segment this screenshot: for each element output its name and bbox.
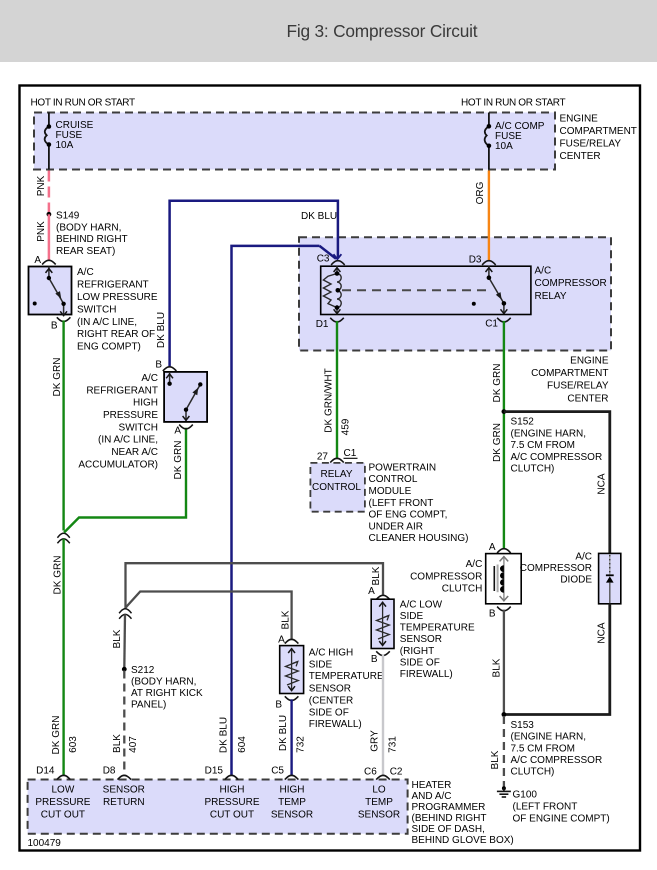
svg-text:HOT IN RUN OR START: HOT IN RUN OR START	[31, 98, 136, 109]
svg-text:HOT IN RUN OR START: HOT IN RUN OR START	[461, 98, 566, 109]
svg-text:SENSOR: SENSOR	[309, 683, 351, 694]
svg-text:C5: C5	[271, 766, 284, 777]
svg-text:BLK: BLK	[112, 734, 123, 753]
wire DK GRN (HP switch A to junction)	[64, 428, 186, 533]
svg-text:CLUTCH): CLUTCH)	[511, 464, 555, 475]
svg-text:A: A	[368, 586, 375, 597]
svg-text:27: 27	[317, 452, 329, 463]
svg-text:FUSE/RELAY: FUSE/RELAY	[547, 381, 609, 392]
svg-text:A/C: A/C	[77, 267, 94, 278]
svg-text:(ENGINE HARN,: (ENGINE HARN,	[511, 732, 587, 743]
svg-text:COMPRESSOR: COMPRESSOR	[520, 563, 592, 574]
svg-text:D15: D15	[205, 766, 224, 777]
svg-text:SIDE: SIDE	[309, 659, 333, 670]
svg-text:BLK: BLK	[280, 610, 291, 629]
svg-text:CENTER: CENTER	[567, 393, 608, 404]
wire GRY 731 (to C6)	[382, 654, 384, 775]
inline connector on BLK wire	[119, 609, 131, 619]
svg-text:DK BLU: DK BLU	[301, 211, 337, 222]
svg-text:ACCUMULATOR): ACCUMULATOR)	[78, 459, 158, 470]
svg-text:PANEL): PANEL)	[131, 700, 166, 711]
svg-text:HEATER: HEATER	[412, 780, 452, 791]
wire DK BLU (branch to D15)	[232, 246, 320, 775]
terminal D14	[57, 775, 71, 779]
svg-text:COMPRESSOR: COMPRESSOR	[535, 278, 607, 289]
svg-text:PNK: PNK	[36, 175, 47, 196]
engine compartment fuse/relay center box	[34, 113, 555, 170]
svg-text:G100: G100	[513, 789, 538, 800]
terminal D15	[225, 775, 239, 779]
svg-text:POWERTRAIN: POWERTRAIN	[369, 462, 437, 473]
svg-text:A/C: A/C	[535, 266, 552, 277]
svg-text:B: B	[51, 320, 58, 331]
svg-text:DK BLU: DK BLU	[218, 717, 229, 753]
svg-text:PRESSURE: PRESSURE	[204, 797, 259, 808]
wire BLK sensor return (top run to low side sensor)	[126, 563, 384, 608]
svg-text:PRESSURE: PRESSURE	[35, 797, 90, 808]
relay U: A/C compressor relay inner box	[321, 266, 531, 314]
svg-text:A: A	[174, 426, 181, 437]
splice S152	[502, 409, 507, 414]
svg-text:CUT OUT: CUT OUT	[41, 810, 85, 821]
wire DK GRN/WHT (D1 to PCM)	[336, 321, 338, 458]
svg-text:100479: 100479	[28, 838, 62, 849]
pin 27 / terminal C1 (PCM)	[330, 458, 344, 462]
svg-text:GRY: GRY	[370, 730, 381, 752]
terminal D8	[118, 775, 132, 779]
svg-text:BEHIND GLOVE BOX): BEHIND GLOVE BOX)	[412, 835, 514, 846]
svg-text:10A: 10A	[495, 141, 513, 152]
svg-text:CUT OUT: CUT OUT	[210, 810, 254, 821]
svg-text:LOW PRESSURE: LOW PRESSURE	[77, 292, 158, 303]
svg-text:(BEHIND RIGHT: (BEHIND RIGHT	[412, 813, 487, 824]
svg-text:SENSOR: SENSOR	[400, 634, 442, 645]
svg-text:DK GRN: DK GRN	[52, 358, 63, 397]
svg-text:DIODE: DIODE	[560, 574, 592, 585]
svg-text:PROGRAMMER: PROGRAMMER	[412, 802, 486, 813]
diode D1: A/C compressor diode	[599, 553, 621, 603]
svg-text:A/C: A/C	[466, 559, 483, 570]
svg-text:C6: C6	[364, 767, 377, 778]
PCM U: RELAY CONTROL box	[310, 463, 365, 512]
inline connector on DK GRN wire	[57, 533, 69, 543]
svg-text:RELAY: RELAY	[320, 469, 352, 480]
wire BLK (connector to S212)	[123, 614, 126, 669]
svg-text:C2: C2	[390, 767, 403, 778]
svg-text:A/C HIGH: A/C HIGH	[309, 647, 353, 658]
svg-text:BLK: BLK	[112, 629, 123, 648]
svg-text:CLUTCH: CLUTCH	[442, 584, 483, 595]
svg-text:D1: D1	[316, 319, 329, 330]
svg-text:COMPARTMENT: COMPARTMENT	[531, 368, 608, 379]
relay outer box (engine compartment fuse/relay center)	[299, 237, 611, 350]
svg-text:ENGINE: ENGINE	[570, 355, 609, 366]
wire BLK (second run to high side sensor)	[126, 592, 292, 639]
svg-text:SWITCH: SWITCH	[77, 304, 116, 315]
svg-text:HIGH: HIGH	[280, 785, 305, 796]
svg-text:D14: D14	[36, 766, 55, 777]
svg-text:UNDER AIR: UNDER AIR	[369, 521, 423, 532]
wire BLK dashed (S153 to G100)	[503, 716, 505, 787]
switch: A/C refrigerant low pressure switch	[29, 267, 72, 315]
splice S149	[47, 212, 52, 217]
terminal B (low side sensor)	[376, 651, 390, 655]
terminal C1 (relay)	[497, 318, 511, 322]
svg-text:RIGHT REAR OF: RIGHT REAR OF	[77, 329, 155, 340]
svg-text:REFRIGERANT: REFRIGERANT	[86, 385, 158, 396]
svg-text:REAR SEAT): REAR SEAT)	[56, 246, 115, 257]
svg-text:BEHIND RIGHT: BEHIND RIGHT	[56, 234, 128, 245]
svg-text:AND A/C: AND A/C	[412, 791, 452, 802]
svg-text:OF ENG COMPT,: OF ENG COMPT,	[369, 510, 448, 521]
svg-text:TEMP: TEMP	[365, 797, 393, 808]
svg-text:COMPARTMENT: COMPARTMENT	[560, 126, 637, 137]
solenoid: A/C compressor clutch	[486, 554, 522, 604]
svg-text:REFRIGERANT: REFRIGERANT	[77, 280, 149, 291]
svg-text:SIDE OF: SIDE OF	[400, 657, 440, 668]
svg-text:CONTROL: CONTROL	[369, 474, 418, 485]
svg-text:MODULE: MODULE	[369, 486, 412, 497]
svg-text:DK GRN: DK GRN	[173, 441, 184, 480]
svg-text:OF ENGINE COMPT): OF ENGINE COMPT)	[513, 813, 610, 824]
svg-text:TEMPERATURE: TEMPERATURE	[309, 671, 384, 682]
svg-text:SENSOR: SENSOR	[103, 785, 145, 796]
terminal B (high side sensor)	[285, 696, 299, 700]
svg-text:ENGINE: ENGINE	[560, 113, 599, 124]
svg-text:COMPRESSOR: COMPRESSOR	[410, 572, 482, 583]
svg-text:C1: C1	[344, 448, 357, 459]
svg-text:(CENTER: (CENTER	[309, 695, 353, 706]
svg-text:BLK: BLK	[490, 750, 501, 769]
svg-text:DK GRN/WHT: DK GRN/WHT	[323, 368, 334, 432]
svg-text:DK GRN: DK GRN	[51, 716, 62, 755]
svg-text:SIDE OF: SIDE OF	[309, 707, 349, 718]
svg-text:RELAY: RELAY	[535, 291, 567, 302]
fuse CRUISE FUSE 10A	[45, 113, 49, 170]
svg-text:A/C COMPRESSOR: A/C COMPRESSOR	[511, 755, 603, 766]
svg-text:SENSOR: SENSOR	[271, 810, 313, 821]
svg-text:(IN A/C LINE,: (IN A/C LINE,	[98, 435, 158, 446]
svg-text:(IN A/C LINE,: (IN A/C LINE,	[77, 317, 137, 328]
svg-text:S152: S152	[511, 417, 535, 428]
svg-text:732: 732	[296, 736, 307, 753]
terminal D1	[330, 318, 344, 322]
svg-text:DK GRN: DK GRN	[492, 364, 503, 403]
relay internal dashed link	[342, 289, 487, 291]
svg-text:SIDE: SIDE	[400, 611, 424, 622]
svg-text:A/C: A/C	[141, 373, 158, 384]
svg-text:7.5 CM FROM: 7.5 CM FROM	[511, 440, 575, 451]
svg-text:ORG: ORG	[475, 181, 486, 204]
svg-text:SIDE OF DASH,: SIDE OF DASH,	[412, 824, 485, 835]
svg-text:S153: S153	[511, 720, 535, 731]
terminal A (clutch)	[497, 549, 511, 553]
svg-text:459: 459	[341, 418, 352, 435]
wire DK GRN (relay C1 to clutch A)	[503, 321, 505, 548]
terminal B (clutch)	[497, 607, 511, 611]
svg-text:(LEFT FRONT: (LEFT FRONT	[513, 801, 578, 812]
svg-text:731: 731	[388, 736, 399, 753]
ground G100	[502, 786, 506, 790]
svg-text:FUSE/RELAY: FUSE/RELAY	[560, 138, 622, 149]
wire DK GRN (LP switch B down to D14)	[62, 320, 64, 530]
svg-text:CLEANER HOUSING): CLEANER HOUSING)	[369, 533, 469, 544]
svg-text:A: A	[489, 542, 496, 553]
svg-text:(BODY HARN,: (BODY HARN,	[131, 676, 196, 687]
svg-text:A/C LOW: A/C LOW	[400, 599, 443, 610]
svg-text:B: B	[275, 700, 282, 711]
svg-text:BLK: BLK	[371, 566, 382, 585]
svg-text:7.5 CM FROM: 7.5 CM FROM	[511, 743, 575, 754]
svg-text:10A: 10A	[56, 140, 74, 151]
svg-text:FIREWALL): FIREWALL)	[400, 669, 453, 680]
wire BLK (clutch B to S153)	[503, 610, 505, 715]
svg-text:FIREWALL): FIREWALL)	[309, 719, 362, 730]
svg-text:(BODY HARN,: (BODY HARN,	[56, 222, 121, 233]
svg-text:A/C COMPRESSOR: A/C COMPRESSOR	[511, 452, 603, 463]
wire NCA (diode to S153)	[504, 604, 610, 715]
svg-text:PRESSURE: PRESSURE	[103, 410, 158, 421]
svg-text:407: 407	[128, 736, 139, 753]
svg-text:D8: D8	[103, 766, 116, 777]
svg-text:SWITCH: SWITCH	[119, 422, 158, 433]
svg-text:DK GRN: DK GRN	[492, 423, 503, 462]
svg-text:604: 604	[237, 736, 248, 753]
svg-text:BLK: BLK	[492, 658, 503, 677]
svg-text:LO: LO	[372, 785, 386, 796]
svg-text:HIGH: HIGH	[133, 398, 158, 409]
terminal B (low pressure switch)	[57, 317, 71, 321]
wire DK BLU 732 (to C5)	[290, 699, 292, 775]
svg-text:A: A	[278, 634, 285, 645]
svg-text:C1: C1	[485, 318, 498, 329]
terminal A (low pressure switch)	[42, 260, 56, 264]
svg-text:CONTROL: CONTROL	[312, 482, 361, 493]
svg-text:D3: D3	[469, 255, 482, 266]
svg-text:DK GRN: DK GRN	[52, 556, 63, 595]
terminal C6	[376, 775, 390, 779]
svg-text:CENTER: CENTER	[560, 151, 601, 162]
svg-text:B: B	[371, 654, 378, 665]
svg-text:HIGH: HIGH	[220, 785, 245, 796]
terminal C5	[285, 775, 299, 779]
svg-text:TEMPERATURE: TEMPERATURE	[400, 623, 475, 634]
svg-text:LOW: LOW	[52, 785, 75, 796]
wire PNK solid (S149 to switch A)	[48, 214, 51, 260]
svg-text:A/C: A/C	[575, 551, 592, 562]
svg-text:NCA: NCA	[596, 473, 607, 494]
svg-text:DK BLU: DK BLU	[156, 312, 167, 348]
svg-text:AT RIGHT KICK: AT RIGHT KICK	[131, 688, 203, 699]
svg-text:SENSOR: SENSOR	[358, 810, 400, 821]
relay switch contacts	[489, 266, 504, 314]
svg-text:ENG COMPT): ENG COMPT)	[77, 342, 141, 353]
relay coil (zigzag + winding)	[323, 266, 341, 315]
svg-text:B: B	[489, 609, 496, 620]
terminal C3	[331, 261, 345, 265]
wire DK BLU (HP switch B up/over to relay C3)	[170, 201, 338, 367]
terminal D3	[482, 261, 496, 265]
svg-text:(RIGHT: (RIGHT	[400, 646, 434, 657]
svg-text:NCA: NCA	[596, 622, 607, 643]
svg-text:DK BLU: DK BLU	[278, 715, 289, 751]
svg-text:NEAR A/C: NEAR A/C	[111, 447, 158, 458]
svg-text:(ENGINE HARN,: (ENGINE HARN,	[511, 428, 587, 439]
fuse A/C COMP FUSE 10A	[485, 113, 489, 170]
svg-text:B: B	[155, 359, 162, 370]
heater and A/C programmer box	[28, 780, 408, 834]
wire BLK dashed (S212 to D8)	[123, 671, 125, 775]
splice S153	[502, 712, 507, 717]
svg-text:PNK: PNK	[36, 221, 47, 242]
svg-text:S212: S212	[131, 665, 155, 676]
wire ORG (fuse to relay D3)	[488, 171, 490, 261]
svg-text:CLUTCH): CLUTCH)	[511, 767, 555, 778]
switch: A/C refrigerant high pressure switch	[163, 367, 177, 371]
splice S212	[122, 667, 127, 672]
svg-text:A: A	[34, 255, 41, 266]
wire PNK dashed (fuse to S149)	[48, 171, 51, 215]
svg-text:603: 603	[68, 736, 79, 753]
svg-text:RETURN: RETURN	[103, 797, 145, 808]
svg-text:TEMP: TEMP	[278, 797, 306, 808]
header bar	[0, 0, 657, 62]
svg-text:(LEFT FRONT: (LEFT FRONT	[369, 498, 434, 509]
svg-text:S149: S149	[56, 211, 80, 222]
svg-text:C3: C3	[317, 254, 330, 265]
thermistor: A/C high side temperature sensor	[285, 639, 299, 643]
wire NCA (S152 to diode)	[504, 412, 610, 554]
